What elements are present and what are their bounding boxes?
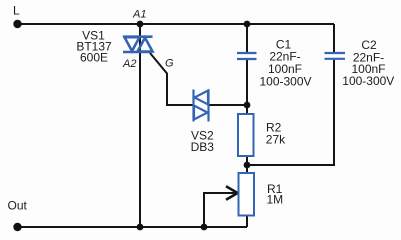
terminal Out — [13, 223, 21, 231]
svg-text:600E: 600E — [80, 51, 108, 65]
label R2 value — [266, 121, 286, 147]
wire gate from triac to diac — [150, 53, 194, 105]
label C2 value — [342, 38, 394, 88]
wire diac to node — [209, 104, 248, 106]
node R2/R1/C2 junction — [244, 162, 251, 169]
triac VS1 — [123, 37, 153, 52]
wire R2 to R1 — [246, 105, 248, 227]
svg-text:A1: A1 — [132, 9, 146, 21]
svg-text:Out: Out — [8, 199, 28, 213]
node A1 junction — [137, 21, 144, 28]
wire top L to C2 — [18, 23, 335, 25]
node triac bottom junction — [137, 224, 144, 231]
resistor R2 — [238, 114, 254, 156]
label R1 value — [267, 182, 284, 207]
wire C1 branch — [246, 24, 248, 105]
svg-text:G: G — [165, 58, 174, 70]
svg-text:L: L — [13, 4, 20, 18]
node C1 top junction — [244, 21, 251, 28]
label VS2 value — [191, 129, 215, 155]
capacitor C2 — [325, 53, 346, 59]
svg-text:A2: A2 — [122, 58, 136, 70]
svg-text:100-300V: 100-300V — [342, 74, 394, 88]
capacitor C1 — [237, 53, 257, 59]
svg-text:DB3: DB3 — [191, 140, 215, 154]
potentiometer R1 — [239, 173, 255, 216]
terminal L — [13, 20, 21, 28]
svg-text:100-300V: 100-300V — [259, 75, 311, 89]
wire potentiometer wiper — [204, 193, 236, 227]
wiper arrowhead — [226, 186, 238, 200]
wire C2 branch down to bottom node — [247, 24, 334, 165]
wire main vertical through triac — [139, 24, 141, 227]
svg-text:27k: 27k — [266, 133, 286, 147]
diac VS2 — [194, 90, 209, 122]
wire bottom Out — [18, 226, 248, 228]
node wiper bottom junction — [201, 224, 208, 231]
label C1 value — [259, 38, 311, 89]
label VS1 value — [76, 29, 112, 65]
svg-text:1M: 1M — [267, 193, 284, 207]
node diac/C1/R2 junction — [244, 102, 251, 109]
